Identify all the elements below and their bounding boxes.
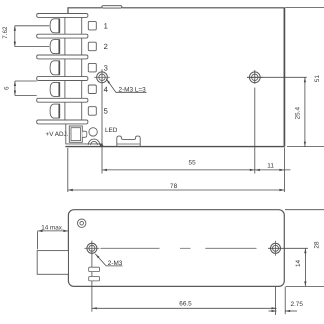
svg-text:14 max.: 14 max. xyxy=(41,225,64,232)
svg-text:LED: LED xyxy=(105,127,118,134)
dimension 2.75 xyxy=(284,286,286,314)
svg-text:2-M3: 2-M3 xyxy=(108,260,123,267)
svg-text:2: 2 xyxy=(104,42,108,51)
top view: case right edge xyxy=(283,8,285,147)
dimension 7.62 xyxy=(15,25,49,27)
svg-text:66.5: 66.5 xyxy=(179,300,192,307)
side view: mounting hole S2 xyxy=(271,243,281,253)
side view: center line xyxy=(101,247,160,249)
svg-text:14: 14 xyxy=(295,260,302,268)
dimension 14 xyxy=(304,248,306,286)
side view: terminal block xyxy=(37,251,68,275)
hole H2 horizontal extension to 25.4 dim xyxy=(247,76,307,78)
terminal bar 1 xyxy=(37,14,88,18)
terminal screw 2 xyxy=(50,40,60,54)
terminal window 2 xyxy=(88,42,96,51)
terminal body wall segment 4 xyxy=(64,81,66,99)
dimension 25.4 xyxy=(304,77,306,146)
hole H1 vertical center/extension line xyxy=(101,69,103,173)
side view: cover screw xyxy=(78,219,86,227)
bottom-right extension line (51/25.4) xyxy=(287,146,324,148)
terminal window 5 xyxy=(88,107,96,116)
top view: case top tab xyxy=(102,6,122,8)
mounting hole H2 (top view) xyxy=(249,72,260,83)
hole S1 vertical extension line xyxy=(91,241,93,312)
svg-text:3: 3 xyxy=(104,63,108,72)
dimension 6 xyxy=(15,80,37,82)
terminal bar 6 xyxy=(37,120,88,124)
vent slot 2 xyxy=(89,277,100,281)
terminal screw 1 xyxy=(50,19,60,33)
svg-text:7.62: 7.62 xyxy=(2,26,9,39)
dimension 28 xyxy=(285,209,324,211)
terminal screw 4 xyxy=(50,82,60,96)
mounting hole H1 (top view) xyxy=(97,72,108,83)
hole H2 vertical center/extension line xyxy=(254,70,256,84)
side view: case outline xyxy=(68,210,284,287)
top view: front flange strip xyxy=(66,124,103,146)
dimension 14 max. xyxy=(38,230,69,232)
terminal bar 4 xyxy=(37,77,88,81)
svg-text:1: 1 xyxy=(104,21,108,30)
terminal bar 3 xyxy=(37,55,88,59)
terminal body wall segment 3 xyxy=(64,59,66,77)
case right edge extension line xyxy=(283,148,285,193)
svg-text:11: 11 xyxy=(267,162,274,169)
terminal body wall segment 2 xyxy=(64,38,66,55)
dimension 51 xyxy=(285,7,324,9)
flange corner mark xyxy=(100,143,104,146)
dimension 55 xyxy=(102,169,255,171)
grommet arcs on bottom edge xyxy=(88,139,100,145)
svg-text:51: 51 xyxy=(314,75,321,83)
svg-text:4: 4 xyxy=(104,85,108,94)
terminal window 4 xyxy=(88,85,96,94)
dimension 78 xyxy=(67,148,69,192)
LED hole xyxy=(89,128,97,136)
dimension 11 xyxy=(255,169,291,171)
clip on bottom edge xyxy=(117,136,140,146)
top view: case bottom edge xyxy=(65,146,284,148)
terminal bar 2 xyxy=(37,34,88,38)
terminal body wall segment 1 xyxy=(64,17,66,34)
svg-text:2.75: 2.75 xyxy=(290,301,303,308)
terminal bar 5 xyxy=(37,98,88,102)
hole S2 extensions xyxy=(268,247,308,249)
svg-text:25.4: 25.4 xyxy=(294,107,301,120)
terminal window 3 xyxy=(88,63,96,72)
dimension 66.5 xyxy=(92,307,277,309)
svg-text:78: 78 xyxy=(170,183,178,190)
top view: case top edge xyxy=(68,8,102,14)
terminal body wall segment 5 xyxy=(64,102,66,120)
svg-text:55: 55 xyxy=(189,159,197,166)
vent slot 1 xyxy=(89,267,100,271)
svg-text:+V ADJ.: +V ADJ. xyxy=(46,131,69,138)
side view: mounting hole S1 xyxy=(87,243,97,253)
leader 2-M3 (side view) xyxy=(95,254,122,266)
svg-text:2-M3 L=3: 2-M3 L=3 xyxy=(119,86,147,93)
svg-text:6: 6 xyxy=(4,86,11,90)
potentiometer +V ADJ xyxy=(69,126,82,142)
terminal window 1 xyxy=(88,21,96,30)
terminal screw 3 xyxy=(50,61,60,75)
terminal screw 5 xyxy=(50,104,60,118)
leader 2-M3 L=3 (top view) xyxy=(106,79,146,92)
svg-text:28: 28 xyxy=(314,241,321,249)
svg-text:5: 5 xyxy=(104,107,108,116)
